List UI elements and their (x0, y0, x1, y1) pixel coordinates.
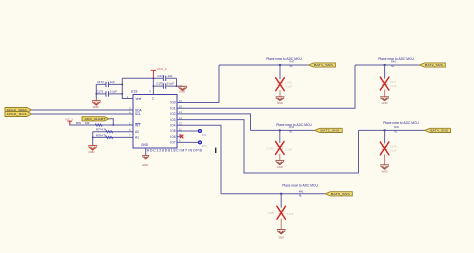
svg-text:0.1uF: 0.1uF (285, 147, 292, 151)
svg-text:U19: U19 (131, 89, 138, 93)
capacitor C175 plates (163, 83, 165, 88)
resistor R77 body (106, 131, 113, 133)
svg-text:C176: C176 (285, 80, 292, 84)
svg-text:BAT2_SNS: BAT2_SNS (425, 63, 443, 67)
wire stem lower D (gnd) (384, 154, 386, 164)
svg-text:NL: NL (394, 129, 398, 133)
svg-text:1uF: 1uF (110, 80, 115, 84)
svg-text:1uF: 1uF (168, 74, 173, 78)
wire stem upper C (279, 130, 281, 143)
svg-text:C178: C178 (266, 146, 273, 150)
svg-text:4.7k: 4.7k (101, 133, 107, 137)
svg-text:A1: A1 (135, 136, 139, 140)
svg-text:IO1: IO1 (170, 106, 175, 110)
svg-text:BAT5_SNS: BAT5_SNS (331, 192, 350, 196)
wire stem lower C (gnd) (279, 154, 281, 161)
svg-text:R40: R40 (394, 125, 399, 129)
svg-text:IO2: IO2 (170, 112, 175, 116)
svg-text:A0: A0 (135, 130, 139, 134)
capacitor C172 plates (106, 76, 166, 97)
svg-text:C175: C175 (156, 82, 163, 86)
wire U19 gnd stem (145, 148, 147, 156)
svg-text:Place near to ADC MCU: Place near to ADC MCU (383, 121, 419, 125)
DNP X D (380, 142, 389, 155)
svg-text:GND: GND (89, 150, 95, 154)
ground A0/A1 (88, 146, 97, 151)
svg-text:Vref: Vref (136, 97, 142, 101)
svg-text:C173: C173 (97, 90, 104, 94)
wire IO0 to section A (177, 65, 219, 103)
svg-text:GND: GND (382, 101, 388, 105)
cursor tick (215, 148, 216, 153)
wire right caps ground vertical (176, 78, 178, 86)
wire capacitor C175 row (153, 85, 182, 87)
power VCC_3 top (151, 70, 157, 78)
svg-text:0.1uF: 0.1uF (167, 82, 174, 86)
port BAT1_SNS (309, 63, 336, 67)
svg-text:IO4: IO4 (170, 124, 175, 128)
wire Vdd vertical to pin 9 (152, 78, 154, 94)
wire A1 row (93, 136, 133, 138)
resistor R76 body (95, 124, 102, 126)
wire stem upper E (280, 194, 282, 208)
testpoint IO5 (199, 130, 202, 133)
svg-text:NL: NL (299, 194, 303, 198)
svg-text:NL: NL (290, 64, 294, 68)
svg-text:NL: NL (391, 64, 395, 68)
port I2C2_SCL (5, 112, 32, 117)
capacitor C178 plates (DNP) (277, 146, 283, 149)
svg-text:VCC_3: VCC_3 (65, 119, 73, 121)
ground B (380, 97, 389, 101)
wire IO3 to section D (177, 120, 359, 173)
svg-text:C177: C177 (390, 80, 397, 84)
wire SDA from port to U19 (32, 109, 134, 111)
wire SCL from port to U19 (32, 113, 134, 115)
wire ADC_ALERT port to INT pin (109, 119, 133, 125)
ground U19 (142, 155, 149, 159)
svg-text:0.1uF: 0.1uF (390, 149, 397, 153)
svg-text:INT: INT (135, 123, 140, 127)
svg-text:GND: GND (93, 105, 99, 109)
svg-text:GND: GND (278, 235, 284, 239)
wire stem upper B (384, 65, 386, 79)
wire stem lower A (gnd) (279, 90, 281, 97)
svg-text:0.1uF: 0.1uF (285, 85, 292, 89)
svg-text:C180: C180 (268, 211, 275, 215)
svg-text:ADC128D818CIMT/NOPB: ADC128D818CIMT/NOPB (147, 149, 203, 153)
wire stem lower E (gnd) (280, 219, 282, 230)
capacitor C172 label (97, 74, 175, 94)
svg-text:GND: GND (141, 143, 149, 147)
wire capacitor C172 row (96, 83, 122, 85)
no-ERC X on IO6 (180, 135, 183, 139)
wire VCC_3 pullup to resistor R76 (70, 121, 114, 125)
svg-text:SCL: SCL (135, 112, 141, 116)
svg-text:R46: R46 (391, 60, 396, 64)
svg-text:GND: GND (179, 89, 185, 93)
svg-text:C179: C179 (390, 145, 397, 149)
svg-text:IO6: IO6 (170, 135, 175, 139)
ground D (380, 165, 389, 170)
DNP X C (276, 141, 285, 154)
svg-text:GND: GND (277, 101, 283, 105)
ground right caps (178, 86, 187, 90)
DNP X E (277, 206, 286, 219)
DNP X A (276, 78, 285, 91)
wire stem upper D (384, 130, 386, 143)
wire IO1 to section B (177, 65, 355, 108)
wire section B horizontal (355, 64, 420, 66)
capacitor C180 plates (DNP) (278, 211, 284, 214)
wire section A horizontal (219, 64, 309, 66)
wire IO6 stub (177, 136, 181, 138)
svg-text:Place near to ADC MCU: Place near to ADC MCU (282, 183, 318, 187)
wire IO4 to section E (177, 125, 221, 194)
svg-text:IO3: IO3 (170, 118, 175, 122)
port I2C2_SDA (5, 108, 32, 113)
port BAT2_SNS (420, 63, 446, 67)
port BAT4_SNS (425, 128, 451, 132)
svg-text:2: 2 (152, 97, 154, 101)
wire left gnd vertical (95, 84, 97, 101)
wire stem lower B (gnd) (384, 90, 386, 97)
svg-text:IO0: IO0 (170, 101, 175, 105)
svg-text:4.7k: 4.7k (101, 128, 107, 132)
svg-text:IO5: IO5 (202, 133, 207, 137)
capacitor C177 plates (DNP) (382, 82, 388, 85)
ground A (276, 97, 285, 101)
wire IO5 to testpoint (177, 130, 198, 132)
svg-text:BAT1_SNS: BAT1_SNS (314, 63, 333, 67)
wire section C horizontal (251, 129, 315, 131)
IC U19 body (133, 95, 177, 149)
svg-text:BAT4_SNS: BAT4_SNS (430, 129, 448, 133)
svg-text:R44: R44 (289, 125, 294, 129)
wire A0/A1 gnd vertical (92, 132, 94, 146)
capacitor C179 plates (DNP) (382, 147, 388, 150)
svg-text:0.1uF: 0.1uF (287, 212, 294, 216)
svg-text:C172: C172 (97, 80, 104, 84)
svg-text:Place near to ADC MCU: Place near to ADC MCU (276, 123, 312, 127)
capacitor C174 plates (163, 76, 165, 81)
svg-text:R47: R47 (290, 60, 295, 64)
capacitor C176 plates (DNP) (277, 83, 283, 86)
svg-text:I2C2_SCL: I2C2_SCL (7, 112, 27, 116)
pin numbers (127, 90, 183, 143)
wire VCC rail top (122, 77, 176, 79)
wire section D horizontal (359, 129, 425, 131)
svg-text:VCC_3: VCC_3 (157, 67, 167, 71)
svg-text:GND: GND (142, 163, 148, 167)
wire IO7 to testpoint (177, 141, 198, 143)
svg-text:C174: C174 (158, 74, 165, 78)
wire IO2 to section C (177, 114, 251, 130)
svg-text:BAT3_SNS: BAT3_SNS (320, 129, 339, 133)
svg-text:IO5: IO5 (170, 129, 175, 133)
wire Vref pin to cap rail (122, 78, 133, 98)
resistor R78 body (106, 136, 113, 138)
svg-text:NL: NL (289, 129, 293, 133)
ground C (275, 160, 284, 164)
wire section E horizontal (221, 193, 325, 195)
svg-text:IO7: IO7 (202, 144, 207, 148)
wire stem upper A (279, 65, 281, 79)
svg-text:GND: GND (382, 170, 388, 174)
DNP X B (380, 77, 389, 90)
ground under C172/C173 (92, 101, 101, 106)
svg-text:IO7: IO7 (170, 141, 175, 145)
svg-text:R76: R76 (76, 121, 81, 125)
svg-text:0.1uF: 0.1uF (110, 90, 117, 94)
svg-text:GND: GND (277, 165, 283, 169)
INT overline (135, 122, 141, 124)
port BAT5_SNS (325, 192, 352, 196)
ground E (277, 230, 286, 234)
power VCC_3 at R76 (68, 121, 72, 125)
svg-text:Place near to ADC MCU: Place near to ADC MCU (266, 57, 302, 61)
pin labels inside U19 (135, 97, 176, 148)
svg-text:Place near to ADC MCU: Place near to ADC MCU (378, 57, 414, 61)
svg-text:R41: R41 (299, 189, 304, 193)
svg-text:0.1uF: 0.1uF (390, 84, 397, 88)
testpoint IO7 (199, 141, 202, 144)
svg-text:10k: 10k (85, 121, 90, 125)
capacitor C173 plates (106, 91, 109, 96)
wire capacitor C173 row (96, 93, 122, 95)
wire A0 row (93, 131, 133, 133)
port ADC_ALERT (82, 117, 109, 121)
svg-text:ADC_ALERT: ADC_ALERT (85, 117, 106, 121)
port BAT3_SNS (315, 128, 343, 132)
